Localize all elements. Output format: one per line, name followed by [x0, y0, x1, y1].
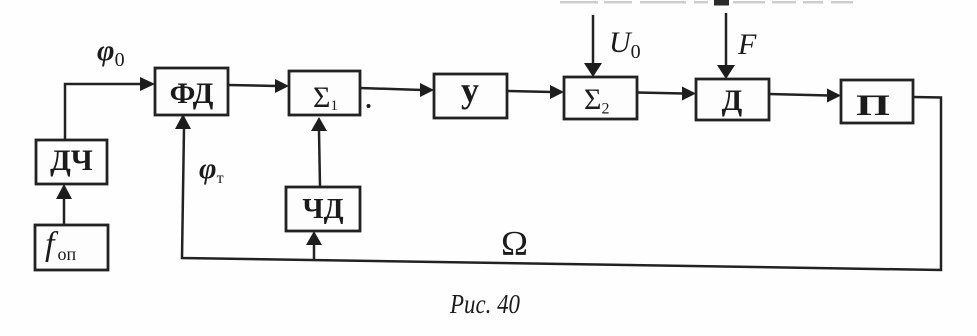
wire FD to S1	[228, 85, 277, 86]
wire S1 to U	[360, 88, 422, 90]
arrowhead into U left	[420, 83, 434, 97]
arrowhead into S1 left	[275, 79, 289, 93]
block FD	[155, 68, 228, 115]
svg-text:φт: φт	[199, 152, 224, 187]
svg-text:П: П	[856, 89, 890, 122]
arrowhead into P left	[827, 89, 841, 103]
wire branch up to ChD	[313, 245, 316, 261]
arrowhead F down into D	[717, 65, 735, 79]
block S2	[564, 77, 637, 119]
svg-text:у: у	[461, 70, 479, 110]
block S1	[289, 71, 360, 115]
arrowhead into FD left	[140, 77, 155, 91]
arrowhead into D left	[682, 87, 696, 101]
svg-text:Рис. 40: Рис. 40	[449, 289, 520, 319]
block DCh	[36, 140, 107, 184]
svg-text:ЧД: ЧД	[302, 193, 343, 225]
arrowhead U0 down into S2	[584, 63, 602, 77]
wire DCh up and right to FD	[65, 84, 142, 140]
block ChD	[286, 187, 360, 231]
wire feedback from P around bottom	[182, 97, 941, 270]
svg-text:U0: U0	[609, 26, 641, 63]
svg-text:F: F	[737, 28, 757, 61]
svg-text:ДЧ: ДЧ	[50, 144, 93, 177]
dot after S1	[367, 104, 371, 108]
arrowhead up into DCh	[56, 184, 72, 199]
block P	[841, 80, 913, 123]
wire ChD up to S1	[319, 131, 320, 187]
wire fop to DCh	[63, 198, 66, 225]
wire F input	[725, 13, 728, 66]
wire D to P	[769, 94, 829, 96]
arrowhead up into ChD	[306, 231, 322, 245]
arrowhead feedback up into FD	[175, 114, 191, 129]
block U	[434, 74, 507, 118]
arrowhead into S2 left	[550, 85, 564, 99]
svg-text:Д: Д	[722, 84, 743, 117]
cut-off text line at top of scan	[560, 1, 598, 4]
wire U to S2	[506, 91, 552, 92]
block D	[696, 79, 769, 120]
svg-text:φ0: φ0	[97, 34, 125, 71]
svg-text:ФД: ФД	[170, 77, 214, 110]
arrowhead ChD up into S1	[311, 117, 327, 131]
block fop	[35, 225, 108, 270]
svg-text:Ω: Ω	[501, 224, 528, 263]
wire U0 input	[592, 15, 595, 64]
wire S2 to D	[637, 93, 684, 94]
